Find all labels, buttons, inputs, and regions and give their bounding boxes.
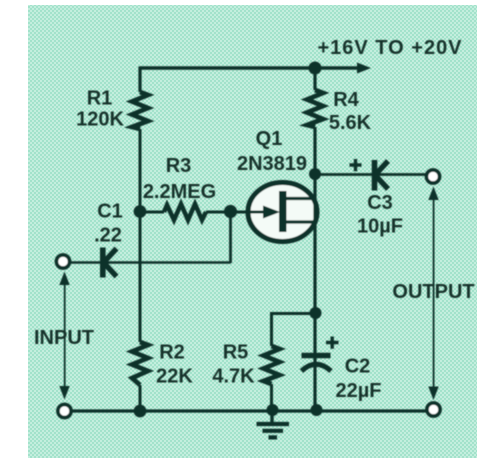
- C3 plus sign: [350, 159, 362, 171]
- wire: R4 to drain junction: [313, 127, 316, 174]
- svg-text:INPUT: INPUT: [34, 327, 94, 349]
- svg-text:C1: C1: [97, 201, 123, 223]
- input span up arrow: [59, 272, 69, 286]
- wire: +V top rail: [140, 66, 358, 69]
- svg-text:R3: R3: [166, 155, 192, 177]
- output top terminal: [426, 170, 439, 183]
- Q1 channel bar: [279, 191, 287, 232]
- resistor R5: [264, 346, 280, 384]
- svg-text:2N3819: 2N3819: [237, 153, 307, 175]
- node: drain junction: [309, 168, 321, 180]
- wire: C1 branch vertical: [229, 212, 232, 263]
- svg-text:OUTPUT: OUTPUT: [392, 281, 474, 303]
- capacitor C3 (K-shaped scan): [375, 160, 389, 191]
- svg-text:R2: R2: [159, 342, 185, 364]
- Q1 drain bar: [286, 197, 316, 200]
- node: source junction: [310, 307, 322, 319]
- svg-text:R4: R4: [333, 89, 359, 111]
- svg-text:C3: C3: [367, 192, 393, 214]
- wire: R3 to gate: [206, 211, 266, 214]
- wire: R1 branch vertical (top rail to gate node): [138, 66, 141, 92]
- svg-text:+16V TO +20V: +16V TO +20V: [317, 37, 462, 59]
- Q1 gate arrow: [263, 206, 280, 219]
- wire: drain-source vertical through Q1 down to bottom rail: [313, 174, 316, 410]
- node: R5 bottom rail junction: [267, 404, 279, 416]
- wire: bottom rail: [71, 409, 427, 412]
- C2 plus sign: [326, 337, 339, 349]
- output span up arrow: [428, 187, 438, 201]
- output span line: [433, 197, 435, 390]
- svg-text:10µF: 10µF: [357, 216, 403, 238]
- svg-text:R5: R5: [223, 342, 249, 364]
- wire: gate line with R3: [140, 211, 164, 214]
- svg-text:2.2MEG: 2.2MEG: [143, 181, 216, 203]
- svg-text:Q1: Q1: [256, 128, 283, 150]
- Q1 gate wire inside: [248, 211, 266, 214]
- svg-text:C2: C2: [345, 356, 371, 378]
- wire: R5 L-branch: [272, 314, 316, 347]
- wire: R5 to bottom rail: [270, 384, 273, 411]
- svg-text:.22: .22: [94, 225, 122, 247]
- svg-text:22µF: 22µF: [336, 380, 382, 402]
- supply arrowhead: [357, 63, 371, 74]
- node: R1/R2 bottom rail junction: [134, 405, 147, 418]
- Q1 source bar: [286, 220, 316, 223]
- svg-text:120K: 120K: [76, 109, 124, 131]
- capacitor C2 top plate: [302, 353, 331, 359]
- wire: C3 horizontal: [315, 173, 426, 176]
- wire: R1 to R2 vertical: [139, 129, 142, 342]
- resistor R1: [132, 92, 148, 129]
- transistor Q1 body: [248, 183, 317, 242]
- node: gate junction (R3 left): [134, 205, 147, 218]
- node: supply junction: [309, 62, 322, 75]
- capacitor C1 (K-shaped scan): [103, 248, 117, 278]
- wire: C1 horizontal: [70, 261, 231, 264]
- node: C2 bottom rail junction: [311, 404, 323, 416]
- svg-text:4.7K: 4.7K: [212, 366, 255, 388]
- resistor R2: [132, 342, 148, 385]
- input bottom terminal: [58, 404, 71, 417]
- svg-text:5.6K: 5.6K: [329, 112, 372, 134]
- resistor R4: [307, 90, 323, 127]
- output span down arrow: [428, 387, 438, 401]
- resistor R3: [164, 204, 206, 220]
- node: gate junction (C1 tap): [224, 205, 237, 218]
- output bottom terminal: [427, 403, 440, 416]
- svg-text:22K: 22K: [156, 366, 193, 388]
- wire: R2 to bottom rail: [139, 385, 142, 411]
- input span down arrow: [59, 386, 69, 400]
- wire: R4 drain branch top: [313, 66, 316, 90]
- input span line: [64, 283, 66, 388]
- input top terminal: [56, 255, 69, 268]
- ground symbol: [270, 411, 273, 423]
- capacitor C2 curved plate: [302, 364, 332, 371]
- svg-text:R1: R1: [87, 88, 113, 110]
